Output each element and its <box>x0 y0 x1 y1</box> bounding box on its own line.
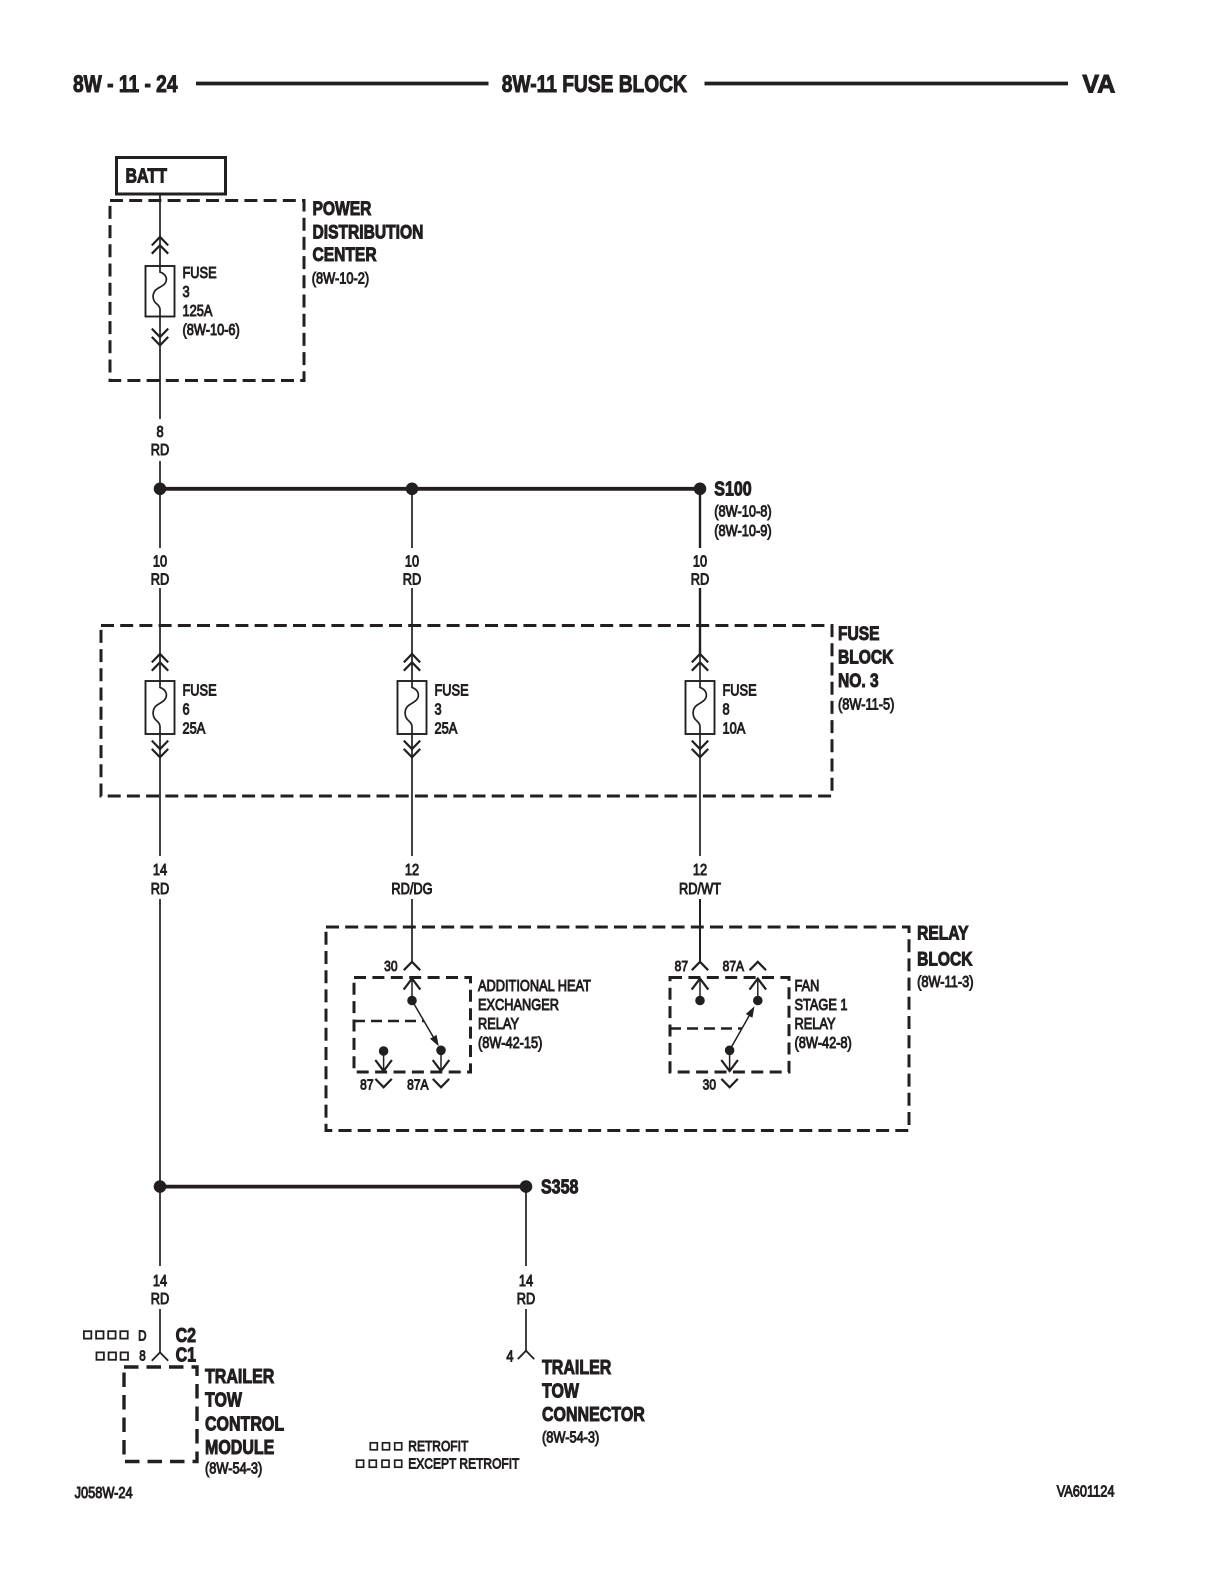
svg-text:RD/DG: RD/DG <box>391 881 432 899</box>
svg-text:CONTROL: CONTROL <box>205 1413 284 1435</box>
retrofit variant squares row (pin D) <box>84 1331 128 1338</box>
legend RETROFIT label <box>408 1438 468 1455</box>
wire S358 to module lower <box>159 1309 161 1352</box>
svg-text:VA: VA <box>1082 71 1115 99</box>
relay 1 armature (30 to 87A) <box>412 1001 439 1047</box>
svg-text:(8W-11-3): (8W-11-3) <box>917 974 973 992</box>
svg-text:FUSE: FUSE <box>183 682 217 700</box>
relay 1 pin 87A label <box>407 1076 429 1093</box>
svg-text:BLOCK: BLOCK <box>917 948 973 970</box>
fuse 6 25A value label <box>183 682 217 738</box>
fuse F3 125A in PDC <box>146 266 175 317</box>
svg-text:(8W-10-2): (8W-10-2) <box>312 270 369 288</box>
connector BATT <box>117 158 226 195</box>
svg-text:RELAY: RELAY <box>478 1016 519 1034</box>
svg-text:VA601124: VA601124 <box>1057 1483 1115 1501</box>
fuse F8 10A in fuse block <box>686 681 715 734</box>
wire label 10 RD (drop 2) <box>403 553 421 589</box>
fuse block no.3 label <box>838 622 894 714</box>
fuse block no.3 dashed box <box>101 626 832 797</box>
svg-text:TOW: TOW <box>542 1380 580 1402</box>
relay 2 pin 87A label <box>723 958 745 975</box>
wire S100 drop 3 lower <box>699 588 701 681</box>
fuse 8 10A value label <box>723 682 757 738</box>
relay 2 pin 87 terminal <box>692 978 709 1005</box>
svg-text:DISTRIBUTION: DISTRIBUTION <box>313 221 424 243</box>
svg-text:(8W-42-8): (8W-42-8) <box>795 1035 852 1053</box>
junction dot right S100 <box>694 483 706 495</box>
svg-text:S358: S358 <box>541 1176 578 1198</box>
header left rule <box>196 82 489 86</box>
relay 1 pin 30 terminal <box>404 978 421 1005</box>
relay 2 pin 30 terminal <box>721 1046 738 1071</box>
header page code VA <box>1082 71 1115 99</box>
wire S100 drop 1 upper <box>159 489 161 548</box>
wire S100 drop 2 lower <box>411 588 413 681</box>
svg-text:STAGE 1: STAGE 1 <box>795 997 848 1015</box>
power distribution center dashed box <box>110 201 304 381</box>
svg-text:FUSE: FUSE <box>838 622 880 644</box>
relay block label <box>917 922 973 992</box>
svg-text:87A: 87A <box>723 958 745 975</box>
fan stage 1 relay label <box>795 978 852 1053</box>
junction dot left <box>154 483 166 495</box>
fuse 3 125A value label <box>183 265 240 340</box>
svg-text:(8W-54-3): (8W-54-3) <box>205 1460 262 1478</box>
power distribution center label <box>312 197 424 288</box>
svg-text:87: 87 <box>675 958 688 975</box>
svg-text:8W - 11 - 24: 8W - 11 - 24 <box>73 70 178 98</box>
svg-text:RD/WT: RD/WT <box>679 881 721 899</box>
relay 2 armature (30 to 87A) <box>730 1006 755 1050</box>
svg-text:87: 87 <box>360 1076 373 1093</box>
relay 1 pin 87A connector chevron <box>433 1079 449 1087</box>
wire label 10 RD (drop 3) <box>691 553 709 589</box>
relay 1 pin 87A terminal <box>433 1046 450 1071</box>
relay 1 pin 87 terminal <box>375 1047 392 1071</box>
svg-text:C1: C1 <box>176 1344 196 1366</box>
additional heat exchanger relay dashed box <box>354 978 471 1073</box>
fuse F3 25A in fuse block <box>398 681 427 734</box>
wire into splice S100 <box>159 461 161 486</box>
relay 2 pin 87A terminal <box>750 978 767 1005</box>
junction dot right S358 <box>520 1181 532 1193</box>
svg-text:POWER: POWER <box>313 197 372 219</box>
svg-text:30: 30 <box>384 958 398 975</box>
svg-text:14: 14 <box>153 862 167 880</box>
junction dot middle <box>406 483 418 495</box>
splice S358 bus <box>160 1185 526 1189</box>
svg-text:EXCEPT RETROFIT: EXCEPT RETROFIT <box>408 1455 519 1472</box>
svg-text:CONNECTOR: CONNECTOR <box>542 1403 645 1425</box>
additional heat exchanger relay label <box>478 978 591 1053</box>
relay 1 pin 87 connector chevron <box>375 1079 391 1087</box>
svg-text:MODULE: MODULE <box>205 1436 274 1458</box>
svg-text:NO. 3: NO. 3 <box>838 669 879 691</box>
legend except-retrofit squares <box>357 1460 402 1467</box>
svg-text:FUSE: FUSE <box>183 265 217 283</box>
svg-text:25A: 25A <box>183 720 206 738</box>
svg-text:14: 14 <box>153 1273 167 1291</box>
svg-text:S100: S100 <box>714 478 751 500</box>
svg-text:12: 12 <box>693 862 707 880</box>
wire below fuse 8 <box>699 734 701 856</box>
legend retrofit squares <box>370 1443 401 1450</box>
relay 2 pin 87 connector chevron <box>692 962 708 970</box>
wire S358 to trailer tow connector upper <box>525 1187 527 1266</box>
fuse 3 25A value label <box>435 682 469 738</box>
wire below fuse 3 <box>159 317 161 420</box>
svg-text:RD: RD <box>403 571 421 589</box>
module connector fork <box>152 1352 168 1360</box>
in-chevrons above fuse 3 <box>404 654 420 671</box>
out-chevrons below fuse 3 <box>404 741 420 758</box>
svg-text:EXCHANGER: EXCHANGER <box>478 997 559 1015</box>
header center title 8W-11 FUSE BLOCK <box>502 70 687 98</box>
svg-text:125A: 125A <box>183 303 213 321</box>
in-chevrons above fuse 8 <box>692 654 708 671</box>
wire BATT to fuse 3 (PDC) <box>159 194 161 266</box>
wire label 14 RD (module) <box>151 1273 169 1309</box>
out-chevrons below fuse 6 <box>152 741 168 758</box>
svg-text:(8W-10-8): (8W-10-8) <box>714 503 771 521</box>
wire S100 drop 2 upper <box>411 489 413 548</box>
svg-text:TOW: TOW <box>205 1389 243 1411</box>
svg-text:12: 12 <box>405 862 419 880</box>
svg-text:(8W-10-9): (8W-10-9) <box>714 523 771 541</box>
trailer tow control module dashed box <box>124 1367 197 1462</box>
svg-text:D: D <box>138 1327 146 1344</box>
svg-text:RD: RD <box>517 1291 535 1309</box>
header right rule <box>705 82 1069 86</box>
wire label 12 RD/WT <box>679 862 721 899</box>
svg-text:8: 8 <box>723 701 730 719</box>
svg-text:14: 14 <box>519 1273 533 1291</box>
module connector C1 label <box>176 1344 196 1366</box>
wire 14 RD down to splice S358 <box>159 899 161 1183</box>
svg-text:RD: RD <box>151 1291 169 1309</box>
relay 2 pin 30 label <box>703 1076 717 1093</box>
svg-text:ADDITIONAL HEAT: ADDITIONAL HEAT <box>478 978 591 996</box>
wire label 12 RD/DG <box>391 862 432 899</box>
svg-text:10: 10 <box>153 553 167 571</box>
splice S358 label <box>541 1176 578 1198</box>
relay 2 pin 87A connector chevron <box>750 962 766 970</box>
svg-text:FUSE: FUSE <box>723 682 757 700</box>
svg-text:RETROFIT: RETROFIT <box>408 1438 468 1455</box>
svg-text:TRAILER: TRAILER <box>205 1365 274 1387</box>
svg-text:8: 8 <box>139 1347 145 1364</box>
wire label 14 RD <box>151 862 169 899</box>
svg-text:RD: RD <box>691 571 709 589</box>
legend EXCEPT RETROFIT label <box>408 1455 519 1472</box>
svg-text:(8W-54-3): (8W-54-3) <box>542 1429 599 1447</box>
wire S100 drop 1 lower <box>159 588 161 681</box>
wire S358 to trailer tow connector lower <box>525 1309 527 1351</box>
svg-text:(8W-10-6): (8W-10-6) <box>183 322 240 340</box>
wire 12 RD/DG down to relay block <box>411 899 413 962</box>
page header left title 8W - 11 - 24 <box>73 70 178 98</box>
svg-text:(8W-42-15): (8W-42-15) <box>478 1035 542 1053</box>
svg-text:BLOCK: BLOCK <box>838 646 894 668</box>
svg-text:TRAILER: TRAILER <box>542 1356 611 1378</box>
wire 12 RD/WT down to relay block <box>699 899 701 962</box>
svg-text:8W-11 FUSE BLOCK: 8W-11 FUSE BLOCK <box>502 70 687 98</box>
relay 1 pin 87 label <box>360 1076 373 1093</box>
splice S100 label <box>714 478 771 541</box>
svg-text:6: 6 <box>183 701 190 719</box>
wire label 10 RD (drop 1) <box>151 553 169 589</box>
svg-text:J058W-24: J058W-24 <box>75 1485 133 1503</box>
wire S358 to module upper <box>159 1187 161 1266</box>
svg-text:3: 3 <box>183 284 190 302</box>
footer drawing number J058W-24 <box>75 1485 133 1503</box>
svg-text:RELAY: RELAY <box>795 1016 836 1034</box>
fuse F6 25A in fuse block <box>146 681 175 734</box>
junction dot left at S358 <box>154 1181 166 1193</box>
svg-text:8: 8 <box>156 424 163 442</box>
wire S100 drop 3 upper <box>699 489 701 548</box>
wire below fuse 6 <box>159 734 161 856</box>
out-chevrons above fuse 3 <box>152 237 168 254</box>
svg-text:BATT: BATT <box>126 165 167 187</box>
module pin 8 label <box>139 1347 145 1364</box>
svg-text:FUSE: FUSE <box>435 682 469 700</box>
svg-text:87A: 87A <box>407 1076 429 1093</box>
svg-text:10: 10 <box>693 553 707 571</box>
module connector C2 label <box>176 1324 196 1346</box>
svg-text:CENTER: CENTER <box>313 243 377 265</box>
fan stage 1 relay dashed box <box>670 978 789 1073</box>
svg-text:(8W-11-5): (8W-11-5) <box>838 696 894 714</box>
in-chevrons above fuse 6 <box>152 654 168 671</box>
svg-text:30: 30 <box>703 1076 717 1093</box>
svg-text:25A: 25A <box>435 720 458 738</box>
relay 1 pin 30 label <box>384 958 398 975</box>
wire label 8 RD <box>151 424 169 460</box>
trailer tow connector pin 4 label <box>506 1348 513 1366</box>
trailer tow control module label <box>205 1365 284 1478</box>
svg-text:RD: RD <box>151 571 169 589</box>
svg-text:FAN: FAN <box>795 978 820 996</box>
except-retrofit squares row (pin 8) <box>97 1352 129 1359</box>
splice S100 bus <box>160 487 700 491</box>
svg-text:4: 4 <box>506 1348 513 1366</box>
svg-text:RD: RD <box>151 442 169 460</box>
svg-text:10: 10 <box>405 553 419 571</box>
relay 2 pin 30 connector chevron <box>721 1079 737 1087</box>
module pin D label <box>138 1327 146 1344</box>
footer sheet code VA601124 <box>1057 1483 1115 1501</box>
svg-text:3: 3 <box>435 701 442 719</box>
wire below fuse 3 <box>411 734 413 856</box>
relay 1 pin 30 connector chevron <box>404 962 420 970</box>
out-chevrons below fuse 8 <box>692 741 708 758</box>
svg-text:RD: RD <box>151 881 169 899</box>
relay 2 pin 87 label <box>675 958 688 975</box>
svg-text:10A: 10A <box>723 720 746 738</box>
trailer tow connector label <box>542 1356 645 1447</box>
svg-text:RELAY: RELAY <box>917 922 969 944</box>
relay block dashed box <box>326 927 909 1131</box>
out-chevrons below fuse 3 <box>152 329 168 346</box>
trailer tow connector fork <box>518 1351 534 1359</box>
wire label 14 RD (connector) <box>517 1273 535 1309</box>
